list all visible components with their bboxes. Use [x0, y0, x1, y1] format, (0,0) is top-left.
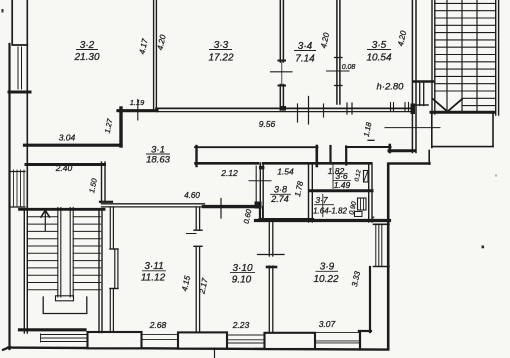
- svg-text:0.08: 0.08: [342, 64, 356, 71]
- stringer foot box: [56, 296, 74, 301]
- wall: 3-10 top: [204, 205, 260, 208]
- door swing tick 3-11: [187, 233, 197, 235]
- svg-text:7.14: 7.14: [295, 54, 315, 65]
- wall: right outer upper: [411, 0, 413, 153]
- staircase bottom-left: bottom wall: [20, 328, 86, 331]
- staircase top-right: left wall: [431, 0, 433, 114]
- svg-text:4.60: 4.60: [184, 191, 200, 200]
- wall: 3-4 / 3-5: [336, 0, 338, 104]
- dim line 1.18: [385, 127, 440, 129]
- speck far right: [372, 139, 374, 141]
- porch below staircase: [41, 334, 89, 342]
- staircase bottom-left: left wall: [23, 209, 25, 333]
- svg-text:17.22: 17.22: [208, 53, 233, 64]
- bottom centre section tick: [214, 348, 216, 358]
- svg-text:10.54: 10.54: [366, 53, 391, 64]
- speck right of 3-7: [373, 217, 375, 219]
- closet band top line: [195, 146, 318, 148]
- wall 3-7 bottom: [256, 219, 390, 222]
- wall: corridor left upper: [119, 108, 122, 146]
- bottom-left tail: [3, 347, 10, 350]
- wall: bottom outer: [8, 348, 388, 350]
- svg-text:2.12: 2.12: [220, 168, 238, 178]
- wall jog 1.19: [118, 109, 157, 112]
- staircase bottom-left: treads: [27, 217, 100, 290]
- bottom wall pier 2: [178, 332, 227, 348]
- staircase bottom-left: half landing: [43, 297, 87, 314]
- 3-8 left wall top blob: [259, 166, 264, 170]
- svg-text:10.22: 10.22: [313, 274, 338, 285]
- svg-text:3·8: 3·8: [274, 185, 287, 195]
- nook 0.60 verticals: [259, 207, 261, 221]
- 3-9 window right: [375, 225, 377, 267]
- band jamb: [329, 146, 331, 164]
- wall: 3-10 / 3-9: [268, 223, 270, 257]
- svg-text:1.49: 1.49: [334, 180, 351, 190]
- staircase top-right: right wall: [495, 0, 497, 115]
- svg-text:9.10: 9.10: [232, 275, 252, 286]
- room 3-8 left wall: [259, 163, 261, 221]
- staircase top-right: stringers: [446, 0, 448, 111]
- bottom windows thin lines: [142, 333, 360, 343]
- svg-text:2.40: 2.40: [55, 163, 73, 173]
- svg-text:21.30: 21.30: [73, 52, 99, 63]
- window left W2: [13, 170, 15, 207]
- closet band bottom / tops of 3-8 3-6: [196, 162, 259, 165]
- nook stub: [428, 151, 430, 165]
- wall: 3-2 / 3-3: [153, 0, 155, 111]
- svg-text:18.63: 18.63: [146, 155, 170, 166]
- band jamb 2: [345, 147, 347, 165]
- stair entry door: [419, 83, 421, 106]
- speck lower right: [482, 246, 485, 249]
- window left W1: [17, 47, 19, 89]
- duct in 3-7: [358, 198, 367, 210]
- door swing 3-4: [271, 71, 293, 73]
- wall: 3-11 / 3-10: [195, 207, 197, 230]
- staircase bottom-left: stringers: [57, 208, 59, 298]
- wall: long corridor north (upper line): [156, 107, 411, 109]
- wall: left outer: [8, 44, 10, 349]
- wall: 3-11 top: [102, 203, 205, 205]
- staircase bottom-left: direction arrow: [41, 210, 50, 217]
- pilaster top-left: [12, 0, 27, 45]
- wall: 3-3 / 3-4: [279, 0, 281, 62]
- stair entry landing: [414, 80, 434, 83]
- dim tick 1.19: [137, 100, 139, 121]
- staircase bottom-left: right wall: [98, 209, 100, 333]
- wall: nook top y163: [389, 162, 430, 164]
- svg-text:1.54: 1.54: [277, 167, 294, 177]
- wall jog right of band: [388, 145, 391, 152]
- dim tick through 3-6 labels: [332, 165, 334, 190]
- room 3-8 bottom wall: [260, 218, 313, 221]
- staircase top-right: direction arrow: [433, 99, 462, 112]
- dim tick on 3-10 top wall: [220, 199, 222, 219]
- bottom wall pier 3: [265, 333, 316, 349]
- svg-text:1.82: 1.82: [328, 166, 345, 176]
- corner block: [255, 202, 262, 209]
- wall 3-6 / 3-7 divider: [310, 189, 372, 192]
- wall: alcove right: [101, 162, 103, 202]
- tick above nook: [368, 139, 374, 141]
- wall block left: [9, 91, 30, 94]
- 3-9 bottom step: [359, 330, 371, 332]
- svg-text:2.68: 2.68: [149, 320, 167, 330]
- door line left of 3-8: [255, 166, 257, 202]
- staircase top-right: treads: [435, 3, 496, 105]
- corner blob at right wall: [411, 104, 416, 115]
- wall: long corridor north (lower line): [157, 111, 414, 113]
- wall: 3-11 left: [109, 207, 111, 249]
- staircase top-right: bottom wall: [431, 111, 494, 114]
- band right cap: [315, 146, 318, 166]
- speck near top-left: [2, 9, 4, 13]
- svg-text:9.56: 9.56: [259, 119, 276, 129]
- wall: alcove 2.40 top: [26, 163, 105, 166]
- tick 0.08: [327, 70, 350, 72]
- duct in 3-6: [364, 171, 369, 183]
- svg-text:11.12: 11.12: [141, 273, 166, 284]
- wall: left inner line: [26, 0, 28, 210]
- rooms 3-6/3-7 outer right wall: [368, 163, 370, 222]
- staircase top-right: lower landing: [431, 114, 433, 148]
- door/dim ticks on long wall: [297, 104, 299, 122]
- wall: room 3-2 bottom: [25, 144, 122, 147]
- staircase bottom-left: top wall: [20, 208, 105, 211]
- svg-text:3.07: 3.07: [319, 319, 336, 329]
- band left cap: [195, 146, 197, 166]
- speck mid right: [495, 175, 497, 177]
- jog 3-11 left lower: [110, 288, 118, 290]
- svg-text:2.74: 2.74: [270, 194, 289, 204]
- wall: right wing return: [389, 149, 414, 152]
- svg-text:h·2.80: h·2.80: [377, 82, 405, 93]
- svg-text:3.04: 3.04: [59, 133, 76, 143]
- jog 3-11 left upper: [110, 248, 118, 250]
- svg-text:1.19: 1.19: [130, 98, 145, 107]
- svg-text:3·7: 3·7: [315, 195, 328, 205]
- 3-9 right wall inner: [369, 267, 371, 332]
- 3-9 right wall outer: [387, 164, 390, 349]
- svg-text:2.23: 2.23: [232, 320, 250, 330]
- door swing tick: [249, 180, 271, 182]
- room 3-8 right wall / 3-7 left: [308, 163, 310, 222]
- svg-text:1.64-1.82: 1.64-1.82: [313, 207, 347, 216]
- bottom wall pier 1: [88, 332, 142, 348]
